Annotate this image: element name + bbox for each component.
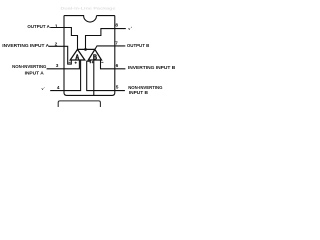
pin 3 wire NON-INVERTING INPUT A to op-amp A plus input — [47, 60, 80, 69]
svg-text:OUTPUT B: OUTPUT B — [127, 43, 149, 48]
minus sign op-amp A inverting input — [69, 61, 71, 63]
svg-text:OUTPUT A: OUTPUT A — [27, 24, 50, 29]
svg-text:4: 4 — [57, 85, 60, 91]
pin 1 wire OUTPUT A to op-amp A output apex — [50, 28, 77, 50]
svg-text:–: – — [44, 87, 46, 89]
svg-text:3: 3 — [56, 63, 59, 69]
svg-text:1: 1 — [55, 23, 58, 29]
junction dot V+ node — [84, 48, 87, 51]
svg-text:INPUT B: INPUT B — [129, 90, 148, 95]
pin 8 wire V+ supply staircase to junction — [86, 29, 126, 50]
IC package DIP-8 outline with index notch — [64, 16, 115, 96]
minus sign op-amp B inverting input — [101, 61, 103, 63]
svg-text:INVERTING INPUT A: INVERTING INPUT A — [2, 43, 50, 48]
svg-text:INVERTING INPUT B: INVERTING INPUT B — [128, 65, 175, 70]
cut-off box of next figure at bottom — [58, 101, 100, 108]
svg-text:6: 6 — [116, 63, 119, 69]
svg-text:2: 2 — [55, 42, 58, 48]
svg-text:A: A — [75, 54, 79, 62]
faint caption Dual-In-Line Package — [61, 5, 117, 10]
svg-text:V: V — [41, 87, 43, 91]
op-amp U1B triangle — [88, 49, 101, 60]
svg-text:Dual-In-Line Package: Dual-In-Line Package — [61, 5, 117, 10]
pin 4 wire V- supply — [50, 60, 80, 91]
svg-text:INPUT A: INPUT A — [25, 70, 45, 75]
wire op-amp B V- tap to bottom — [93, 60, 95, 95]
svg-text:B: B — [93, 54, 97, 62]
svg-text:NON-INVERTING: NON-INVERTING — [12, 64, 47, 69]
svg-text:8: 8 — [115, 23, 118, 29]
plus sign op-amp B non-inverting input — [92, 61, 94, 63]
svg-text:7: 7 — [115, 40, 118, 46]
pin 5 wire NON-INVERTING INPUT B to op-amp B plus input — [87, 60, 125, 91]
svg-text:5: 5 — [116, 85, 119, 91]
svg-text:NON-INVERTING: NON-INVERTING — [128, 85, 163, 90]
op-amp U1A triangle — [70, 49, 85, 60]
V+ rail bar between op-amps — [78, 48, 95, 50]
svg-text:V: V — [128, 27, 130, 31]
pin 6 wire INVERTING INPUT B to op-amp B minus input — [101, 60, 126, 69]
svg-text:+: + — [131, 27, 133, 29]
plus sign op-amp A non-inverting input — [75, 62, 77, 64]
pin 7 wire OUTPUT B to op-amp B output apex — [95, 46, 125, 50]
pin 2 wire INVERTING INPUT A to op-amp A minus input — [49, 46, 71, 64]
